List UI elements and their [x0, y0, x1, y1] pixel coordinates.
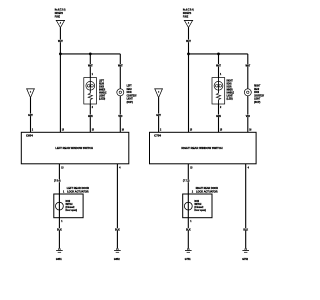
wire WHT fuse to switch pin 13 — [59, 28, 61, 133]
wire BLK switch pin 4 to ground G652 — [116, 164, 118, 249]
svg-text:Door open): Door open) — [194, 209, 206, 212]
svg-text:FUSE: FUSE — [55, 15, 60, 19]
svg-text:(7 7.2): (7 7.2) — [183, 180, 190, 183]
svg-text:RIGHT REAR WINDOW SWITCH: RIGHT REAR WINDOW SWITCH — [181, 146, 222, 150]
wire label GRN — [216, 115, 221, 118]
wire WHT branch to inner handle light — [218, 54, 220, 78]
svg-text:(LED): (LED) — [227, 98, 233, 101]
wire switch to door lock actuator — [58, 164, 60, 194]
connector triangle RT2 — [154, 89, 163, 98]
svg-text:BLK: BLK — [243, 228, 248, 231]
wire label WHT — [186, 40, 191, 43]
ground G751 — [185, 248, 192, 252]
door lock actuator LM1 — [54, 194, 83, 218]
svg-text:G751: G751 — [185, 257, 191, 261]
wire VIO courtesy light to switch pin 16 — [119, 96, 121, 133]
window switch LSW1 — [21, 132, 129, 164]
door switch contact circle — [184, 202, 192, 210]
wire label VIO — [245, 115, 250, 118]
connector triangle RT1 (fuse feed) — [184, 20, 193, 27]
wire label BLK — [115, 228, 120, 231]
junction node at handle-light branch — [89, 53, 92, 56]
svg-text:WHT: WHT — [186, 40, 191, 43]
svg-text:G752: G752 — [242, 257, 248, 261]
wire BLK actuator to ground G651 — [58, 218, 60, 249]
wire label GRY — [156, 114, 161, 117]
wire through actuator — [58, 194, 60, 218]
ground G752 — [242, 248, 249, 252]
wire label WHT — [216, 64, 221, 67]
wire label WHT — [58, 40, 63, 43]
svg-text:(3CP): (3CP) — [127, 101, 133, 104]
svg-text:DRIVER'S: DRIVER'S — [183, 11, 191, 15]
wire through actuator — [187, 194, 189, 218]
svg-text:LOCK ACTUATOR: LOCK ACTUATOR — [196, 190, 218, 193]
svg-text:VIO: VIO — [118, 115, 122, 118]
svg-text:G652: G652 — [114, 257, 120, 261]
junction node at handle-light branch — [217, 53, 220, 56]
svg-text:GRN: GRN — [216, 115, 221, 118]
lamp LL2 courtesy light — [117, 89, 124, 96]
svg-text:No.9 (7.5 A): No.9 (7.5 A) — [183, 8, 194, 12]
svg-text:WHT: WHT — [88, 64, 93, 67]
grid reference (7 7.2) — [183, 179, 191, 183]
wire WHT branch to courtesy light — [119, 54, 121, 89]
svg-text:GRY: GRY — [28, 114, 33, 117]
svg-text:FUSE: FUSE — [183, 15, 188, 19]
svg-text:GRY: GRY — [156, 114, 161, 117]
svg-text:C754: C754 — [154, 134, 161, 138]
lamp RL1 inner handle light — [212, 78, 225, 104]
wire horizontal bus — [189, 53, 248, 55]
connector triangle LT1 (fuse feed) — [56, 20, 65, 27]
wire GRY triangle to switch pin 2 — [30, 98, 32, 133]
svg-text:WHT: WHT — [245, 64, 250, 67]
svg-text:BLK: BLK — [57, 228, 62, 231]
wire label GRN — [88, 115, 93, 118]
wire GRY triangle to switch pin 2 — [158, 98, 160, 133]
wire label WHT — [118, 64, 123, 67]
lamp RL2 courtesy light — [244, 89, 251, 96]
svg-text:C654: C654 — [26, 134, 33, 138]
lamp LL1 inner handle light — [84, 78, 97, 104]
wire WHT branch to inner handle light — [89, 54, 91, 78]
wire label BLK — [243, 228, 248, 231]
svg-text:(LED): (LED) — [99, 98, 105, 101]
wire WHT fuse to switch pin 13 — [188, 28, 190, 133]
wire BLK switch pin 4 to ground G752 — [245, 164, 247, 249]
wire label VIO — [118, 115, 123, 118]
svg-text:(3CP): (3CP) — [254, 101, 260, 104]
svg-text:WHT: WHT — [216, 64, 221, 67]
svg-text:WHT: WHT — [58, 40, 63, 43]
svg-text:(7 5.4): (7 5.4) — [54, 180, 61, 183]
connector triangle LT2 — [26, 89, 35, 98]
door switch contact circle — [56, 202, 64, 210]
wire GRN handle light to switch pin 15 — [218, 104, 220, 132]
wire GRN handle light to switch pin 15 — [89, 104, 91, 132]
svg-text:Door open): Door open) — [66, 209, 78, 212]
ground G652 — [114, 248, 121, 252]
wire BLK actuator to ground G751 — [187, 218, 189, 249]
wire label BLK — [186, 228, 191, 231]
svg-text:G651: G651 — [56, 257, 62, 261]
window switch RSW1 — [150, 132, 257, 164]
svg-text:No.8 (7.5 A): No.8 (7.5 A) — [55, 8, 66, 12]
svg-text:DRIVER'S: DRIVER'S — [55, 11, 63, 15]
svg-text:GRN: GRN — [88, 115, 93, 118]
svg-text:VIO: VIO — [246, 115, 250, 118]
wire switch to door lock actuator — [187, 164, 189, 194]
ground G651 — [56, 248, 63, 252]
door lock actuator RM1 — [183, 194, 212, 218]
grid reference (7 5.4) — [54, 179, 62, 183]
wire label WHT — [88, 64, 93, 67]
svg-text:LOCK ACTUATOR: LOCK ACTUATOR — [67, 190, 89, 193]
wire WHT branch to courtesy light — [247, 54, 249, 89]
wire VIO courtesy light to switch pin 16 — [247, 96, 249, 133]
wire label WHT — [245, 64, 250, 67]
junction node at feed wire — [187, 53, 190, 56]
wire label GRY — [28, 114, 33, 117]
svg-text:WHT: WHT — [118, 64, 123, 67]
wire horizontal bus — [60, 53, 120, 55]
svg-text:BLK: BLK — [186, 228, 191, 231]
svg-text:BLK: BLK — [115, 228, 120, 231]
wire label BLK — [57, 228, 62, 231]
svg-text:LEFT REAR WINDOW SWITCH: LEFT REAR WINDOW SWITCH — [55, 146, 93, 150]
junction node at feed wire — [59, 53, 62, 56]
